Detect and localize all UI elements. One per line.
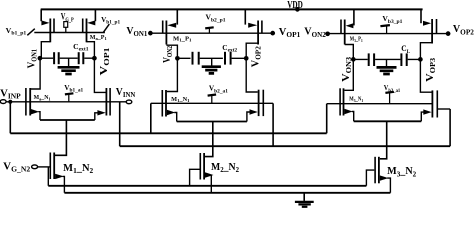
gate bar	[109, 88, 111, 116]
transistor M3_P1 (left PMOS, stage 3)	[341, 9, 354, 59]
channel bar	[49, 19, 51, 43]
gate bar	[25, 88, 27, 116]
source arrow	[250, 109, 258, 114]
wire V_G_N2 to gate	[37, 166, 49, 168]
port V_INP	[0, 100, 6, 104]
wire NMOS gate line stage 2	[151, 102, 273, 104]
source arrow	[31, 109, 39, 114]
gate bar	[436, 90, 438, 117]
VDD rail	[41, 8, 423, 10]
gate bar	[53, 19, 55, 34]
wire source from VDD	[176, 9, 178, 24]
gate bar	[374, 157, 376, 184]
switch blade V_b1_p1 right	[104, 24, 110, 32]
source arrow	[423, 109, 431, 114]
node V_ON2 dot	[175, 56, 180, 61]
source arrow	[248, 23, 257, 28]
wire V_G_P stub	[65, 27, 67, 32]
wire stage3 gate right drop to feedforward B	[449, 109, 451, 146]
ground (stage2 caps)	[202, 58, 221, 73]
gate bar	[436, 19, 438, 34]
transistor M3_N2 (tail, stage 3)	[375, 157, 390, 193]
node dot V_INP branch	[8, 100, 12, 104]
wire source	[247, 112, 250, 122]
node V_OP2 dot	[244, 56, 249, 61]
wire drain	[166, 45, 177, 58]
source arrow	[41, 20, 49, 25]
wire source from VDD	[40, 9, 42, 21]
transistor Ma_P1 (left PMOS, stage 1)	[41, 9, 54, 58]
node V_OP3 dot	[418, 57, 423, 62]
channel bar	[378, 157, 380, 184]
wire tail tap stage 3	[380, 121, 387, 159]
node V_ON1 dot (stage1 output)	[38, 56, 43, 61]
channel bar	[165, 90, 167, 117]
ground (bottom)	[295, 193, 314, 207]
port V_INN	[126, 100, 132, 104]
wire source	[352, 112, 354, 122]
capacitor Cext2 plate4	[230, 52, 232, 65]
ground (stage3 caps)	[377, 59, 397, 74]
node V_ON3 dot	[351, 57, 356, 62]
capacitor Cext1 plate4	[82, 52, 84, 64]
svg-text:M1_N1: M1_N1	[171, 97, 190, 103]
source arrow	[87, 20, 95, 25]
transistor M2_N2 (tail, stage 2)	[200, 153, 213, 193]
transistor M1_P1 (left PMOS, stage 2)	[163, 9, 178, 58]
wire drain up to V_ON1	[31, 58, 40, 89]
source arrow	[344, 109, 352, 114]
wire tail source rail	[64, 192, 390, 194]
wire gate branch down to gate rail	[47, 167, 49, 186]
wire tail tap stage 1	[55, 120, 66, 155]
svg-text:M3_N2: M3_N2	[387, 166, 417, 178]
wire stage3 right gate lead	[438, 108, 450, 110]
source arrow	[346, 23, 354, 28]
gate bar	[82, 19, 84, 34]
svg-text:M1_N2: M1_N2	[63, 163, 94, 175]
wire gate of M2_N2 from gate rail	[190, 169, 200, 186]
bias tap V_b3_p1	[380, 25, 390, 33]
node V_OP2 dot (stage3 right gate)	[446, 31, 451, 36]
channel bar	[257, 21, 259, 45]
wire V_INN down to feedforward wire	[119, 102, 121, 146]
capacitor Cext1 plate3	[78, 52, 80, 64]
transistor M3_N1 (right NMOS, stage 3)	[420, 59, 437, 121]
wire drain up to V_ON3	[344, 59, 353, 90]
source arrow	[167, 110, 175, 115]
transistor M1_N2 (tail, stage 1)	[50, 153, 64, 193]
node V_ON2 dot (stage3 left gate)	[325, 31, 330, 36]
svg-text:M3_P1: M3_P1	[350, 37, 363, 43]
source arrow	[380, 175, 389, 180]
wire PMOS gate line stage 1	[34, 32, 105, 34]
capacitor Cext2 plate2	[198, 52, 200, 65]
wire source from VDD	[244, 9, 246, 24]
wire common source U stage 2	[177, 121, 247, 123]
transistor Ma_P1 (right PMOS, stage 1)	[83, 9, 96, 58]
transistor M1_N1 (left NMOS, stage 2)	[162, 58, 177, 121]
wire source	[95, 113, 98, 120]
wire tail tap stage 2	[205, 122, 213, 157]
channel bar	[343, 88, 345, 115]
wire drain up to V_ON2	[167, 58, 178, 91]
transistor M1_P1 (right PMOS, stage 2)	[245, 9, 262, 58]
svg-text:Ma_N1: Ma_N1	[34, 95, 52, 101]
channel bar	[53, 153, 55, 180]
ground (stage1 caps)	[58, 58, 80, 74]
gate bar	[339, 88, 341, 115]
source arrow	[55, 174, 64, 179]
wire PMOS gate line stage 3	[328, 33, 449, 35]
wire feedforward B (V_INN)	[120, 145, 450, 147]
transistor M3_N1 (left NMOS, stage 3)	[340, 59, 354, 121]
gate bar	[162, 21, 164, 34]
capacitor Cext2 plate1	[192, 52, 194, 65]
wire stage2 gate right drop to feedforward B	[272, 103, 274, 146]
bias tap V_b2_a1	[208, 95, 217, 104]
port V_G_N2	[32, 165, 38, 169]
capacitor CL plate3	[400, 53, 402, 66]
svg-text:Ma_P1: Ma_P1	[90, 35, 108, 41]
gate bar	[199, 153, 201, 180]
transistor M1_N1 (right NMOS, stage 2)	[246, 58, 263, 121]
wire tail gate rail	[48, 185, 366, 187]
svg-text:M3_N1: M3_N1	[349, 97, 363, 103]
bias tap V_b2_p1	[205, 27, 214, 33]
capacitor Cext2 plate3	[224, 52, 226, 65]
wire source	[174, 113, 176, 122]
wire stage3 gate left drop to feedforward A	[326, 104, 328, 134]
node VDD junction dot	[295, 7, 300, 12]
wire cap row stage3	[353, 58, 420, 60]
wire drain	[87, 42, 95, 59]
svg-text:M2_N2: M2_N2	[211, 162, 239, 174]
wire drain	[41, 42, 50, 59]
node V_OP1 dot (stage1 output)	[92, 56, 97, 61]
wire source down	[210, 175, 212, 193]
wire source down	[63, 176, 65, 192]
gate bar	[340, 20, 342, 34]
wire drain	[345, 45, 354, 60]
capacitor CL plate1	[368, 53, 370, 66]
channel bar	[431, 90, 433, 117]
node V_OP1 dot (stage2 right gate)	[270, 31, 275, 36]
transistor Ma_N1 (left NMOS, stage 1)	[26, 58, 40, 120]
wire drain	[420, 43, 432, 60]
source arrow	[423, 21, 431, 26]
wire drain up to V_OP2	[246, 58, 258, 92]
transistor Ma_N1 (right NMOS, stage 1)	[94, 58, 110, 120]
channel bar	[29, 88, 31, 116]
capacitor CL plate4	[406, 53, 408, 66]
wire source	[38, 112, 40, 120]
wire drain up to V_OP3	[420, 59, 431, 92]
svg-text:M1_P1: M1_P1	[173, 36, 192, 42]
channel bar	[344, 20, 346, 45]
channel bar	[203, 153, 205, 180]
wire feedforward A (V_INP)	[10, 132, 326, 134]
wire V_INP down to feedforward wire	[9, 102, 11, 134]
wire cap row stage1	[41, 57, 94, 59]
wire drain up to V_OP1	[94, 58, 105, 92]
wire source	[421, 112, 424, 121]
wire NMOS gate line stage 3	[327, 103, 432, 105]
channel bar	[86, 19, 88, 43]
bias tap V_b3_a1	[385, 92, 394, 104]
capacitor Cext1 plate2	[58, 52, 60, 64]
node V_ON1 dot (stage2 left gate)	[148, 31, 153, 36]
switch blade V_b1_p1 left	[27, 29, 35, 36]
wire drain	[246, 43, 258, 58]
wire source from VDD	[420, 9, 422, 23]
switch V_G_P box	[64, 22, 68, 28]
source arrow	[167, 23, 176, 28]
channel bar	[165, 21, 167, 45]
gate bar	[261, 21, 263, 34]
channel bar	[258, 90, 260, 116]
svg-text:VDD: VDD	[287, 0, 303, 11]
source arrow	[205, 172, 214, 177]
wire common source U stage 3	[354, 120, 422, 122]
transistor M3_P1 (right PMOS, stage 3)	[420, 9, 436, 59]
gate bar	[161, 90, 163, 117]
gate bar	[49, 153, 51, 180]
wire NMOS gate line stage 1	[6, 101, 126, 103]
capacitor CL plate2	[373, 53, 375, 66]
wire source from VDD	[353, 9, 355, 25]
wire stage2 gate left drop to feedforward A	[150, 103, 152, 133]
wire source down	[387, 178, 390, 193]
gate bar	[262, 90, 264, 116]
wire cap row stage2	[177, 57, 246, 59]
wire PMOS gate line stage 2	[150, 32, 272, 34]
bias tap V_b1_a1	[65, 93, 74, 102]
wire common source U stage 1	[40, 119, 95, 121]
channel bar	[105, 88, 107, 116]
capacitor Cext1 plate1	[53, 52, 55, 64]
channel bar	[431, 19, 433, 44]
wire source from VDD	[94, 9, 96, 21]
source arrow	[97, 110, 105, 115]
wire gate of M3_N2 from gate rail	[366, 170, 374, 186]
